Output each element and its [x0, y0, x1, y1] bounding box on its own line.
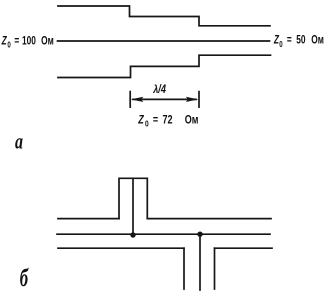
svg-text:0: 0: [7, 40, 10, 50]
svg-text:=: =: [287, 34, 292, 47]
label Z0=72 Om: [137, 114, 198, 128]
svg-text:λ/4: λ/4: [152, 84, 166, 96]
wire bottom stub center conductor: [199, 234, 201, 290]
wire main line top edge left segment (section b): [58, 218, 119, 220]
svg-text:0: 0: [145, 119, 149, 129]
dimension arrowhead right: [186, 97, 199, 102]
dimension arrow line (lambda/4): [133, 98, 196, 100]
junction dot at top stub connection: [130, 232, 135, 237]
svg-text:Ом: Ом: [311, 34, 324, 47]
svg-text:Ом: Ом: [185, 114, 199, 126]
svg-text:72: 72: [162, 114, 172, 126]
wire main center conductor (section b): [57, 233, 270, 235]
svg-text:б: б: [20, 264, 29, 292]
open stub outline (top stub, section b): [119, 178, 147, 218]
svg-text:0: 0: [279, 39, 282, 49]
svg-text:50: 50: [296, 34, 306, 47]
wire stub center conductor (top stub): [132, 178, 134, 235]
svg-text:Z: Z: [137, 114, 144, 126]
svg-text:Z: Z: [1, 35, 8, 48]
dimension tick left (lambda/4): [129, 92, 131, 108]
label Z0=100 Om: [1, 35, 54, 50]
dimension tick right (lambda/4): [198, 92, 200, 108]
svg-text:=: =: [14, 35, 19, 48]
svg-text:Ом: Ом: [41, 35, 54, 48]
junction dot at bottom stub connection: [197, 232, 202, 237]
label Z0=50 Om: [273, 34, 324, 49]
wire main line bottom edge left segment (section b): [58, 247, 184, 249]
bottom stub left edge: [183, 248, 185, 289]
svg-text:100: 100: [22, 35, 36, 48]
wire main line bottom edge right segment (section b): [215, 247, 273, 249]
wire bottom outline of stepped line (section a): [58, 55, 271, 77]
wire top outline of stepped line (section a): [58, 6, 270, 26]
wire main line top edge right segment (section b): [147, 218, 271, 220]
bottom stub right edge: [214, 248, 216, 289]
svg-text:=: =: [153, 114, 158, 126]
wire center conductor (section a): [58, 40, 270, 42]
svg-text:а: а: [15, 130, 23, 154]
dimension arrowhead left: [131, 97, 144, 102]
